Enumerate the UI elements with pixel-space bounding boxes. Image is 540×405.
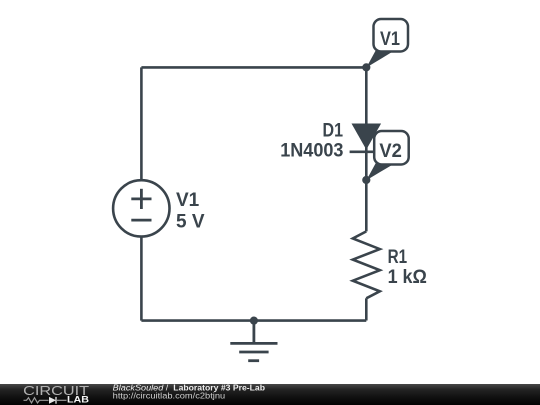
circuitlab logo resistor zigzag <box>24 398 49 403</box>
junction dot node V1 <box>362 63 370 71</box>
svg-text:5 V: 5 V <box>176 211 205 232</box>
ground <box>230 321 277 361</box>
wire right lower <box>365 298 368 320</box>
label D1 1N4003 <box>280 121 343 162</box>
junction dot ground <box>250 317 258 325</box>
svg-text:V2: V2 <box>379 141 402 162</box>
wire right upper <box>365 67 368 231</box>
label V1 5 V <box>176 190 205 233</box>
svg-text:1N4003: 1N4003 <box>280 141 343 162</box>
svg-text:D1: D1 <box>323 121 344 142</box>
wire bottom <box>141 319 366 322</box>
wire top <box>141 66 366 69</box>
svg-text:V1: V1 <box>176 190 200 211</box>
resistor R1 <box>353 231 380 298</box>
wire left upper <box>140 67 143 180</box>
label R1 1 kOhm <box>388 247 427 288</box>
junction dot node V2 <box>362 176 370 184</box>
svg-text:R1: R1 <box>388 247 408 268</box>
diode D1 <box>350 124 384 152</box>
voltage source V1 <box>113 180 169 236</box>
circuitlab logo diode <box>49 397 56 404</box>
svg-text:V1: V1 <box>380 29 400 50</box>
node V1 callout <box>366 19 408 68</box>
svg-text:1 kΩ: 1 kΩ <box>388 267 427 288</box>
node V2 callout <box>366 131 408 180</box>
svg-text:http://circuitlab.com/c2btjnu: http://circuitlab.com/c2btjnu <box>113 391 226 401</box>
svg-text:LAB: LAB <box>67 395 89 405</box>
footer bar <box>0 384 540 405</box>
wire left lower <box>140 237 143 321</box>
